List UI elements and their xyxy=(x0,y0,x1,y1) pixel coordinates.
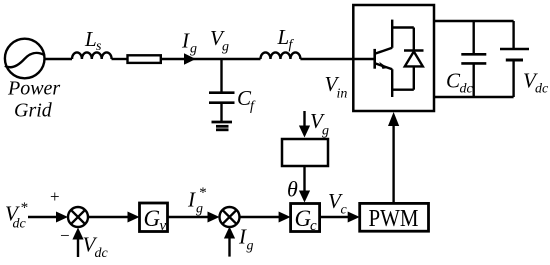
wire Gc to PWM xyxy=(320,216,350,218)
block Gv xyxy=(140,203,168,232)
arrowhead into Gv xyxy=(128,212,140,223)
arrowhead into sum junction xyxy=(56,212,68,223)
label Cf xyxy=(237,86,256,114)
arrowhead into junction2 xyxy=(208,212,220,223)
wire junction2 to Gc xyxy=(240,216,282,218)
svg-text:+: + xyxy=(50,187,60,206)
wire emitter to diode xyxy=(392,88,414,90)
IGBT Q1 collector diagonal xyxy=(376,48,393,54)
wire junction1 to Gv xyxy=(88,216,130,218)
label Vc xyxy=(328,189,348,218)
block Gc xyxy=(291,204,320,232)
resistor (grid impedance) xyxy=(128,55,161,63)
svg-text:dc: dc xyxy=(535,82,549,97)
DC link bottom rail xyxy=(434,96,514,98)
svg-text:I: I xyxy=(187,188,196,212)
label minus xyxy=(60,226,70,245)
arrow PWM to converter xyxy=(392,120,394,203)
label Ig feedback xyxy=(238,225,254,254)
label Ig xyxy=(181,29,197,57)
source Vdc top lead xyxy=(512,21,514,49)
label Power Grid xyxy=(7,78,60,122)
IGBT Q1 emitter diagonal xyxy=(376,64,393,70)
AC source circle (Power Grid) xyxy=(5,39,45,79)
svg-text:g: g xyxy=(322,124,329,139)
svg-text:dc: dc xyxy=(13,217,27,232)
capacitor Cdc bottom lead xyxy=(473,63,475,97)
inductor Ls xyxy=(72,52,112,59)
arrow Ig (current direction) xyxy=(184,53,196,65)
wire Cf to ground xyxy=(220,103,222,122)
svg-text:g: g xyxy=(196,202,203,217)
svg-text:PWM: PWM xyxy=(369,206,419,232)
block PWM xyxy=(360,203,429,231)
label Ls xyxy=(84,27,102,54)
svg-text:*: * xyxy=(199,185,207,201)
wire Vdc* to sum junction xyxy=(28,216,58,218)
label Cdc xyxy=(446,69,474,97)
label Lf xyxy=(277,25,295,53)
svg-text:f: f xyxy=(250,99,256,114)
IGBT Q1 emitter lead xyxy=(391,69,393,97)
arrow theta PLL to Gc xyxy=(303,166,305,192)
label theta xyxy=(287,177,298,202)
svg-text:c: c xyxy=(310,218,317,234)
svg-text:in: in xyxy=(337,87,348,102)
svg-text:g: g xyxy=(222,40,229,55)
svg-text:*: * xyxy=(20,200,28,216)
IGBT Q1 emitter arrow xyxy=(379,62,388,69)
wire Ls to resistor xyxy=(112,58,128,60)
svg-text:θ: θ xyxy=(287,177,298,202)
node: wire down to Cf xyxy=(220,59,222,93)
svg-text:c: c xyxy=(341,203,348,218)
capacitor Cdc plates xyxy=(461,54,486,63)
label Ig* reference xyxy=(187,185,207,217)
wire Lf to converter xyxy=(300,58,353,60)
wire collector to diode xyxy=(392,26,414,28)
label Vin xyxy=(325,72,348,102)
svg-text:dc: dc xyxy=(95,246,109,261)
wire Gv to junction2 xyxy=(168,216,211,218)
diode D1 vertical xyxy=(413,28,415,90)
svg-text:−: − xyxy=(60,226,70,245)
source Vdc bottom lead xyxy=(512,60,514,97)
wire source to Ls xyxy=(45,58,73,60)
label plus xyxy=(50,187,60,206)
label Vg node xyxy=(210,26,229,55)
summing junction 1 xyxy=(68,207,88,227)
source Vdc plates xyxy=(500,49,529,60)
inductor Lf xyxy=(261,52,301,59)
block PLL (unlabeled) xyxy=(282,139,328,166)
IGBT Q1 collector lead xyxy=(391,20,393,48)
arrowhead into PWM xyxy=(348,212,360,223)
svg-text:g: g xyxy=(247,239,254,254)
arrow Vdc feedback xyxy=(77,238,79,257)
converter box U1 xyxy=(353,5,434,111)
svg-text:v: v xyxy=(160,218,167,234)
svg-text:dc: dc xyxy=(460,82,474,97)
svg-text:s: s xyxy=(96,39,102,54)
svg-text:f: f xyxy=(289,38,295,53)
multiplier junction 2 xyxy=(220,207,240,227)
diode D1 triangle xyxy=(405,52,423,67)
IGBT Q1 base bar xyxy=(373,49,376,69)
arrow Vg tap into PLL xyxy=(303,111,305,127)
diode D1 cathode bar xyxy=(404,49,424,52)
svg-text:g: g xyxy=(190,42,197,57)
wire resistor to Lf xyxy=(161,58,261,60)
svg-text:Grid: Grid xyxy=(14,100,53,122)
svg-text:G: G xyxy=(295,206,312,231)
arrow Ig feedback xyxy=(228,237,230,257)
svg-text:L: L xyxy=(84,27,97,51)
svg-text:G: G xyxy=(144,206,161,231)
label Vg tap xyxy=(310,109,329,139)
capacitor Cdc top lead xyxy=(473,21,475,54)
svg-text:Power: Power xyxy=(7,78,60,100)
DC link top rail xyxy=(434,20,514,22)
label Vdc right xyxy=(523,69,549,97)
svg-text:I: I xyxy=(181,29,190,53)
label Vdc feedback xyxy=(83,233,109,262)
ground xyxy=(212,122,233,130)
label Vdc* reference xyxy=(5,200,28,232)
AC source sine wave xyxy=(5,53,44,67)
capacitor Cf xyxy=(209,93,235,103)
svg-text:L: L xyxy=(277,25,290,49)
arrowhead into Gc xyxy=(279,212,291,223)
IGBT Q1 gate lead xyxy=(353,58,374,60)
